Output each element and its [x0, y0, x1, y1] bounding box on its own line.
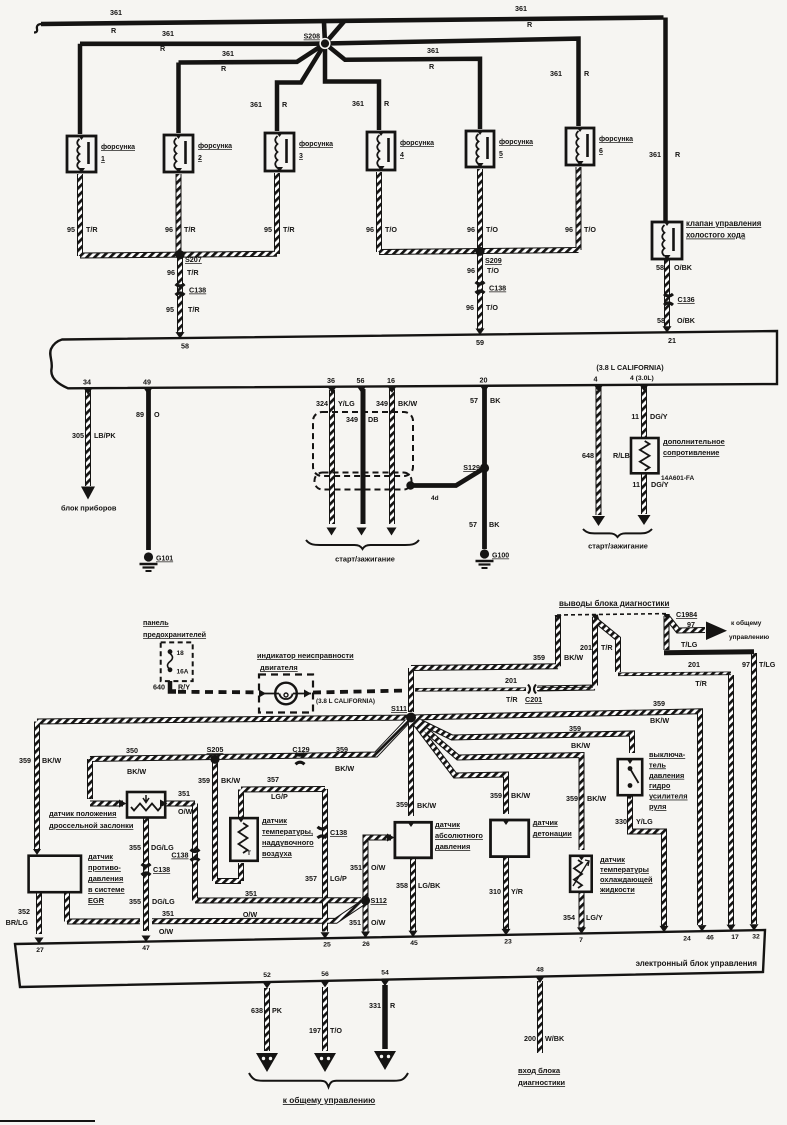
svg-text:PK: PK: [272, 1006, 283, 1015]
svg-text:C138: C138: [153, 865, 170, 874]
svg-text:56: 56: [357, 376, 365, 385]
svg-text:4: 4: [400, 152, 404, 159]
svg-text:648: 648: [582, 451, 594, 460]
svg-text:BK/W: BK/W: [127, 767, 146, 776]
svg-text:C138: C138: [189, 286, 206, 295]
svg-text:BK/W: BK/W: [587, 794, 606, 803]
svg-text:DG/LG: DG/LG: [152, 897, 175, 906]
svg-text:56: 56: [321, 971, 329, 978]
svg-text:C201: C201: [525, 695, 542, 704]
svg-text:R: R: [111, 26, 117, 35]
svg-text:47: 47: [142, 945, 150, 952]
svg-text:201: 201: [505, 676, 517, 685]
svg-text:C138: C138: [489, 284, 506, 293]
svg-text:351: 351: [349, 918, 361, 927]
svg-text:R: R: [282, 100, 288, 109]
svg-text:201: 201: [688, 660, 700, 669]
svg-text:96: 96: [165, 225, 173, 234]
svg-text:форсунка: форсунка: [101, 144, 135, 151]
svg-text:11: 11: [631, 412, 639, 421]
svg-text:W/BK: W/BK: [545, 1034, 565, 1043]
svg-text:блок приборов: блок приборов: [61, 504, 117, 513]
svg-text:C136: C136: [678, 295, 695, 304]
svg-text:355: 355: [129, 897, 141, 906]
svg-text:352: 352: [18, 907, 30, 916]
svg-text:BK: BK: [490, 396, 501, 405]
svg-text:электронный блок управления: электронный блок управления: [636, 959, 758, 968]
svg-text:32: 32: [752, 934, 760, 941]
svg-text:T/O: T/O: [487, 266, 499, 275]
svg-text:324: 324: [316, 399, 328, 408]
svg-text:359: 359: [533, 653, 545, 662]
svg-text:361: 361: [250, 100, 262, 109]
svg-text:359: 359: [653, 699, 665, 708]
svg-text:26: 26: [362, 941, 370, 948]
svg-text:17: 17: [731, 934, 739, 941]
svg-text:4d: 4d: [431, 495, 439, 502]
svg-text:панель: панель: [143, 618, 169, 627]
svg-text:96: 96: [466, 303, 474, 312]
svg-text:BK/W: BK/W: [417, 801, 436, 810]
svg-text:датчик: датчик: [262, 816, 287, 825]
svg-text:двигателя: двигателя: [260, 663, 298, 672]
svg-text:форсунка: форсунка: [299, 141, 333, 148]
svg-text:O/W: O/W: [371, 918, 386, 927]
svg-text:34: 34: [83, 378, 91, 387]
svg-text:T/O: T/O: [486, 303, 498, 312]
svg-text:S208: S208: [304, 34, 320, 41]
svg-text:359: 359: [19, 756, 31, 765]
svg-text:BR/LG: BR/LG: [6, 918, 29, 927]
svg-text:354: 354: [563, 913, 575, 922]
svg-text:95: 95: [264, 225, 272, 234]
svg-text:T/O: T/O: [486, 225, 498, 234]
svg-text:абсолютного: абсолютного: [435, 831, 483, 840]
svg-text:R: R: [527, 20, 533, 29]
svg-text:S207: S207: [185, 255, 202, 264]
svg-text:T: T: [247, 850, 251, 857]
svg-text:EGR: EGR: [88, 896, 105, 905]
svg-text:O: O: [154, 410, 160, 419]
svg-text:96: 96: [167, 268, 175, 277]
svg-text:359: 359: [198, 776, 210, 785]
svg-text:BK/W: BK/W: [571, 741, 590, 750]
svg-text:T/R: T/R: [188, 305, 200, 314]
svg-text:36: 36: [327, 376, 335, 385]
svg-text:45: 45: [410, 940, 418, 947]
svg-text:к общему управлению: к общему управлению: [283, 1095, 375, 1105]
svg-text:датчик: датчик: [435, 820, 460, 829]
svg-text:температуры,: температуры,: [262, 827, 313, 836]
svg-text:355: 355: [129, 843, 141, 852]
svg-text:усилителя: усилителя: [649, 792, 688, 801]
svg-text:DG/Y: DG/Y: [650, 412, 668, 421]
svg-text:температуры: температуры: [600, 865, 649, 874]
svg-text:C129: C129: [292, 745, 309, 754]
svg-text:357: 357: [267, 775, 279, 784]
svg-text:датчик положения: датчик положения: [49, 809, 116, 818]
svg-text:359: 359: [396, 800, 408, 809]
svg-text:руля: руля: [649, 802, 666, 811]
svg-text:LG/BK: LG/BK: [418, 881, 441, 890]
svg-text:361: 361: [222, 49, 234, 58]
svg-text:O/BK: O/BK: [677, 316, 696, 325]
svg-text:R: R: [384, 99, 390, 108]
svg-text:350: 350: [126, 746, 138, 755]
svg-text:359: 359: [566, 794, 578, 803]
svg-text:вход блока: вход блока: [518, 1066, 561, 1075]
svg-text:воздуха: воздуха: [262, 849, 293, 858]
svg-text:LG/Y: LG/Y: [586, 913, 603, 922]
svg-text:противо-: противо-: [88, 863, 121, 872]
svg-text:18: 18: [177, 650, 185, 657]
svg-text:C1984: C1984: [676, 610, 697, 619]
svg-text:C138: C138: [171, 851, 188, 860]
svg-text:3: 3: [299, 153, 303, 160]
svg-text:давления: давления: [435, 842, 470, 851]
svg-text:330: 330: [615, 817, 627, 826]
svg-text:T/O: T/O: [330, 1026, 342, 1035]
svg-text:59: 59: [476, 338, 484, 347]
svg-text:197: 197: [309, 1026, 321, 1035]
svg-text:640: 640: [153, 683, 165, 692]
svg-text:361: 361: [352, 99, 364, 108]
svg-text:BK/W: BK/W: [335, 764, 354, 773]
svg-text:21: 21: [668, 336, 676, 345]
svg-text:331: 331: [369, 1001, 381, 1010]
svg-text:O/W: O/W: [159, 927, 174, 936]
svg-text:89: 89: [136, 410, 144, 419]
svg-text:95: 95: [67, 225, 75, 234]
svg-text:23: 23: [504, 938, 512, 945]
svg-text:BK/W: BK/W: [398, 399, 417, 408]
svg-text:датчик: датчик: [88, 852, 113, 861]
svg-text:LG/P: LG/P: [330, 874, 347, 883]
svg-text:жидкости: жидкости: [599, 885, 635, 894]
svg-text:наддувочного: наддувочного: [262, 838, 314, 847]
svg-text:95: 95: [166, 305, 174, 314]
svg-text:57: 57: [470, 396, 478, 405]
svg-text:49: 49: [143, 377, 151, 386]
svg-text:S112: S112: [371, 896, 387, 905]
svg-text:R: R: [584, 69, 590, 78]
svg-text:2: 2: [198, 155, 202, 162]
svg-text:S205: S205: [207, 745, 224, 754]
svg-text:(3.8 L CALIFORNIA): (3.8 L CALIFORNIA): [316, 698, 375, 705]
svg-text:638: 638: [251, 1006, 263, 1015]
svg-text:T/R: T/R: [187, 268, 199, 277]
svg-text:351: 351: [162, 909, 174, 918]
svg-text:T/R: T/R: [86, 225, 98, 234]
svg-text:14A601-FA: 14A601-FA: [661, 475, 695, 482]
svg-text:R: R: [390, 1001, 396, 1010]
svg-text:клапан управления: клапан управления: [686, 219, 761, 228]
svg-text:Y/LG: Y/LG: [636, 817, 653, 826]
svg-text:форсунка: форсунка: [499, 139, 533, 146]
svg-text:361: 361: [550, 69, 562, 78]
svg-text:T/R: T/R: [601, 643, 613, 652]
svg-text:310: 310: [489, 887, 501, 896]
svg-text:361: 361: [649, 150, 661, 159]
svg-text:58: 58: [656, 263, 664, 272]
svg-text:выключа-: выключа-: [649, 750, 686, 759]
svg-text:20: 20: [480, 375, 488, 384]
svg-text:361: 361: [427, 46, 439, 55]
svg-text:старт/зажигание: старт/зажигание: [588, 542, 648, 551]
svg-text:24: 24: [683, 935, 691, 942]
svg-text:холостого хода: холостого хода: [686, 231, 746, 240]
svg-text:T/LG: T/LG: [681, 640, 698, 649]
svg-text:BK/W: BK/W: [221, 776, 240, 785]
svg-text:349: 349: [376, 399, 388, 408]
svg-text:201: 201: [580, 643, 592, 652]
svg-text:гидро: гидро: [649, 781, 671, 790]
svg-text:16A: 16A: [177, 669, 189, 676]
svg-text:BK: BK: [489, 520, 500, 529]
svg-text:BK/W: BK/W: [42, 756, 61, 765]
svg-text:R: R: [675, 150, 681, 159]
svg-text:5: 5: [499, 151, 503, 158]
svg-text:357: 357: [305, 874, 317, 883]
svg-text:97: 97: [687, 620, 695, 629]
svg-text:индикатор неисправности: индикатор неисправности: [257, 651, 354, 660]
svg-text:359: 359: [490, 791, 502, 800]
svg-text:359: 359: [336, 745, 348, 754]
svg-text:тель: тель: [649, 760, 666, 769]
svg-text:11: 11: [632, 480, 640, 489]
svg-text:старт/зажигание: старт/зажигание: [335, 555, 395, 564]
svg-text:351: 351: [245, 889, 257, 898]
svg-text:выводы блока диагностики: выводы блока диагностики: [559, 599, 669, 608]
svg-text:LG/P: LG/P: [271, 792, 288, 801]
svg-text:BK/W: BK/W: [511, 791, 530, 800]
svg-text:46: 46: [706, 935, 714, 942]
svg-text:25: 25: [323, 942, 331, 949]
svg-text:27: 27: [36, 947, 44, 954]
svg-text:7: 7: [579, 937, 583, 944]
svg-text:DB: DB: [368, 415, 378, 424]
svg-text:T/R: T/R: [506, 695, 518, 704]
svg-text:305: 305: [72, 431, 84, 440]
svg-text:(3.8 L CALIFORNIA): (3.8 L CALIFORNIA): [596, 363, 664, 372]
svg-text:361: 361: [162, 29, 174, 38]
svg-text:Y/LG: Y/LG: [338, 399, 355, 408]
svg-text:S209: S209: [485, 256, 502, 265]
svg-text:управлению: управлению: [729, 634, 770, 641]
svg-text:T/R: T/R: [695, 679, 707, 688]
svg-text:16: 16: [387, 376, 395, 385]
svg-text:R/LB: R/LB: [613, 451, 630, 460]
svg-text:96: 96: [467, 225, 475, 234]
svg-text:48: 48: [536, 967, 544, 974]
svg-text:200: 200: [524, 1034, 536, 1043]
svg-text:O/BK: O/BK: [674, 263, 693, 272]
svg-text:52: 52: [263, 972, 271, 979]
svg-text:4: 4: [594, 375, 598, 384]
svg-text:58: 58: [181, 342, 189, 351]
svg-text:форсунка: форсунка: [198, 143, 232, 150]
svg-text:6: 6: [599, 148, 603, 155]
svg-text:O/W: O/W: [178, 807, 193, 816]
svg-text:Y/R: Y/R: [511, 887, 524, 896]
svg-text:предохранителей: предохранителей: [143, 630, 206, 639]
svg-text:T/O: T/O: [584, 225, 596, 234]
svg-text:S111: S111: [391, 704, 407, 713]
svg-text:351: 351: [350, 863, 362, 872]
svg-text:R: R: [221, 64, 227, 73]
svg-text:форсунка: форсунка: [599, 136, 633, 143]
svg-text:T/O: T/O: [385, 225, 397, 234]
svg-text:G100: G100: [492, 553, 509, 560]
svg-text:T/LG: T/LG: [759, 660, 776, 669]
svg-text:361: 361: [110, 8, 122, 17]
svg-text:C138: C138: [330, 828, 347, 837]
svg-text:охлаждающей: охлаждающей: [600, 875, 653, 884]
svg-text:54: 54: [381, 970, 389, 977]
svg-text:детонации: детонации: [533, 829, 572, 838]
svg-text:358: 358: [396, 881, 408, 890]
svg-text:96: 96: [467, 266, 475, 275]
svg-text:DG/LG: DG/LG: [151, 843, 174, 852]
svg-text:T/R: T/R: [184, 225, 196, 234]
svg-text:58: 58: [657, 316, 665, 325]
svg-text:359: 359: [569, 724, 581, 733]
svg-text:1: 1: [101, 156, 105, 163]
svg-text:349: 349: [346, 415, 358, 424]
svg-text:361: 361: [515, 4, 527, 13]
svg-text:в системе: в системе: [88, 885, 125, 894]
svg-text:4 (3.0L): 4 (3.0L): [630, 375, 654, 382]
svg-text:дополнительное: дополнительное: [663, 437, 725, 446]
svg-text:LB/PK: LB/PK: [94, 431, 116, 440]
svg-text:BK/W: BK/W: [650, 716, 669, 725]
svg-text:BK/W: BK/W: [564, 653, 583, 662]
svg-text:форсунка: форсунка: [400, 140, 434, 147]
svg-text:давления: давления: [88, 874, 123, 883]
svg-text:диагностики: диагностики: [518, 1078, 565, 1087]
svg-text:97: 97: [742, 660, 750, 669]
svg-text:R: R: [160, 44, 166, 53]
svg-text:96: 96: [565, 225, 573, 234]
svg-text:96: 96: [366, 225, 374, 234]
svg-text:к общему: к общему: [731, 619, 762, 627]
svg-text:R: R: [429, 62, 435, 71]
svg-text:дроссельной заслонки: дроссельной заслонки: [49, 821, 134, 830]
svg-text:G101: G101: [156, 556, 173, 563]
svg-text:O/W: O/W: [243, 910, 258, 919]
svg-text:57: 57: [469, 520, 477, 529]
svg-text:датчик: датчик: [533, 818, 558, 827]
svg-text:датчик: датчик: [600, 855, 625, 864]
svg-text:T/R: T/R: [283, 225, 295, 234]
svg-text:351: 351: [178, 789, 190, 798]
svg-text:сопротивление: сопротивление: [663, 448, 719, 457]
svg-text:O/W: O/W: [371, 863, 386, 872]
svg-text:давления: давления: [649, 771, 684, 780]
